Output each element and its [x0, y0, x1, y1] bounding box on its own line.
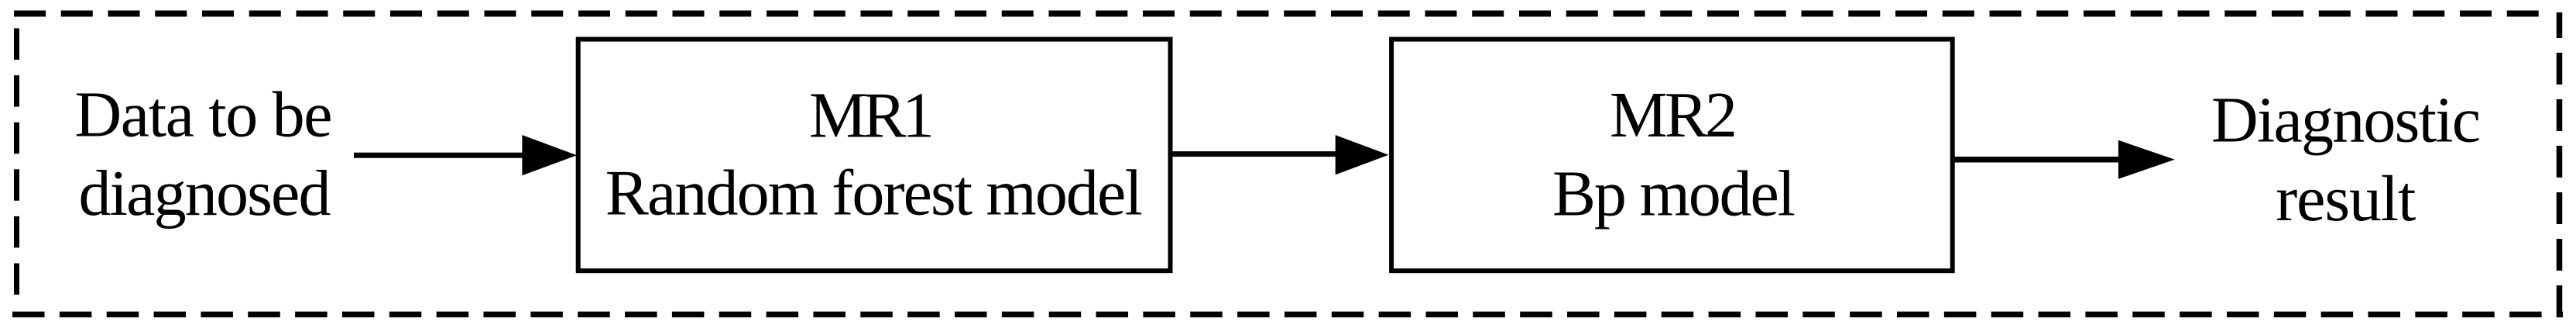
dashed frame right — [2557, 12, 2563, 317]
svg-text:MR1: MR1 — [809, 80, 935, 152]
svg-text:Bp model: Bp model — [1552, 157, 1796, 230]
dashed frame bottom — [12, 312, 2563, 318]
svg-text:result: result — [2276, 163, 2416, 235]
arrow 1 head — [522, 135, 577, 175]
dashed frame left — [14, 29, 19, 299]
svg-text:Diagnostic: Diagnostic — [2211, 85, 2481, 157]
arrow 1 shaft (Data to MR1) — [354, 153, 534, 158]
box MR2 — [1391, 40, 1953, 271]
arrow 2 head — [1336, 135, 1389, 174]
svg-text:Random forest model: Random forest model — [605, 157, 1143, 230]
svg-text:diagnosed: diagnosed — [79, 157, 331, 230]
box MR1 — [578, 40, 1171, 271]
svg-text:MR2: MR2 — [1610, 79, 1737, 151]
arrow 3 shaft (MR2 to result) — [1953, 157, 2129, 163]
dashed frame top — [14, 11, 2539, 17]
arrow 3 head — [2118, 140, 2175, 179]
svg-text:Data to be: Data to be — [75, 79, 333, 151]
arrow 2 shaft (MR1 to MR2) — [1171, 151, 1341, 157]
